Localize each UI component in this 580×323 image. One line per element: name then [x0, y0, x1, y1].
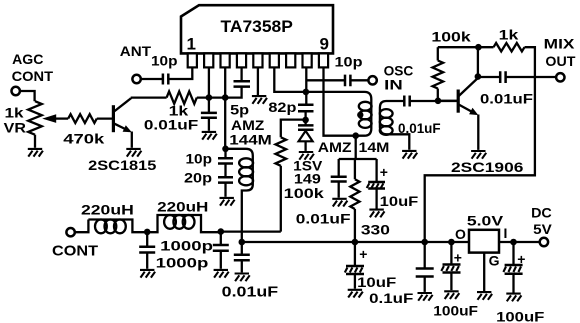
capacitor C 0.01uF (MIX out) — [480, 71, 534, 106]
wire C to ground — [208, 118, 210, 131]
svg-text:G: G — [489, 253, 500, 269]
wire cap to MIX terminal — [506, 76, 556, 78]
IC U1 pin 1 — [188, 53, 197, 67]
node junction Q2 collector — [475, 73, 482, 80]
svg-text:AGC: AGC — [12, 51, 43, 67]
svg-text:0.01uF: 0.01uF — [398, 120, 441, 136]
wire 1k to 5p corner — [197, 87, 242, 98]
svg-text:+: + — [380, 164, 388, 180]
inductor L1 tank coil AMZ 144M — [226, 117, 272, 242]
svg-text:100uF: 100uF — [433, 302, 478, 318]
node junction varicap — [302, 117, 309, 124]
terminal OSC IN — [368, 63, 413, 93]
IC U1 pin 4 — [237, 53, 246, 67]
svg-text:OUT: OUT — [545, 53, 575, 69]
wire Q1 emitter down — [131, 132, 133, 148]
ground below regulator — [477, 292, 492, 300]
svg-text:IN: IN — [384, 77, 403, 93]
svg-text:1k: 1k — [499, 27, 519, 43]
wire 1k to supply drop — [425, 47, 535, 242]
wiper arrow of VR1 — [42, 114, 68, 123]
svg-text:470k: 470k — [63, 130, 104, 146]
wire R470k to Q1 base — [97, 117, 114, 119]
ground below Q2 — [471, 151, 486, 159]
capacitor C 100uF (left electrolytic) — [433, 242, 478, 318]
svg-text:82p: 82p — [268, 99, 296, 115]
svg-text:100uF: 100uF — [496, 308, 545, 323]
resistor R 1k (Q1 collector) — [167, 91, 197, 118]
capacitor C 0.01uF (330 net) — [296, 159, 351, 226]
wire top rail Q2 — [438, 46, 494, 48]
node junction 82p — [303, 89, 310, 96]
capacitor C 10p (OSC) — [335, 54, 363, 87]
wire pin6 to node — [274, 67, 305, 92]
IC U1 pin 9 — [319, 53, 328, 67]
wire 82p to varicap — [304, 111, 306, 125]
ground below 0.01uF — [332, 199, 347, 207]
resistor R 470k — [63, 114, 104, 146]
transformer T1 primary — [306, 92, 390, 155]
wire pin9 down — [324, 67, 356, 135]
wire 10p to OSC terminal — [350, 79, 368, 81]
capacitor C 10uF (lower electrolytic) — [345, 242, 397, 290]
svg-text:100k: 100k — [284, 185, 324, 201]
wire 10p to 20p — [224, 149, 226, 177]
svg-text:5.0V: 5.0V — [467, 213, 504, 229]
capacitor C 5p — [230, 81, 250, 118]
svg-text:+: + — [359, 246, 367, 262]
ground below varicap — [299, 152, 314, 160]
node junction top rail — [475, 44, 482, 51]
inductor L2 220uH — [81, 202, 147, 234]
svg-text:10p: 10p — [186, 150, 213, 166]
svg-text:220uH: 220uH — [81, 202, 134, 218]
capacitor C 0.1uF — [369, 242, 434, 306]
node junction pin2 — [206, 94, 213, 101]
svg-text:O: O — [455, 226, 466, 242]
svg-text:1000p: 1000p — [160, 238, 213, 254]
svg-text:+: + — [454, 250, 462, 266]
svg-text:330: 330 — [361, 221, 390, 237]
ground below pin2 cap — [202, 132, 217, 140]
svg-text:5p: 5p — [230, 102, 249, 118]
svg-text:0.01uF: 0.01uF — [222, 284, 279, 301]
wire Q2 emitter down — [477, 115, 479, 150]
node junction tank top — [222, 146, 229, 153]
ground below Q1 emitter — [126, 149, 141, 157]
resistor R 100k (varicap feed) — [276, 137, 325, 201]
svg-text:10p: 10p — [335, 54, 363, 70]
ground below upper 10uF — [369, 210, 384, 218]
resistor R 330 — [350, 159, 390, 242]
svg-text:100k: 100k — [431, 29, 471, 45]
ground below 1000p second — [214, 270, 229, 278]
resistor R 1k (Q2 load) — [494, 27, 525, 52]
capacitor C 1000p (second) — [156, 232, 229, 271]
wire CONT to L2 — [75, 220, 88, 233]
wire collector to MIX cap — [478, 76, 500, 78]
terminal CONT — [52, 228, 98, 260]
wire pin8 down to 82p — [305, 67, 307, 104]
wire AGC line to 100k — [221, 230, 281, 232]
svg-text:CONT: CONT — [12, 68, 54, 84]
IC U1 pin 3 — [221, 53, 230, 67]
node junction bus 330 — [352, 239, 359, 246]
svg-text:14M: 14M — [359, 139, 390, 155]
wire 20p to ground — [224, 183, 226, 197]
wire coupling cap to Q2 base — [410, 100, 459, 102]
ground below 1000p first — [140, 270, 155, 278]
wire pin3 down to tank — [224, 67, 226, 148]
svg-text:2SC1815: 2SC1815 — [88, 157, 157, 173]
ground below secondary — [402, 151, 417, 159]
svg-text:I: I — [504, 225, 508, 241]
capacitor C 20p — [184, 170, 233, 186]
svg-text:1: 1 — [187, 34, 196, 53]
ground below lower 10uF — [348, 290, 363, 298]
IC U1 pin 5 — [253, 53, 262, 67]
ground below right 100uF — [506, 294, 521, 302]
svg-text:1k: 1k — [5, 104, 24, 120]
inductor L3 220uH — [147, 199, 221, 233]
svg-text:2SC1906: 2SC1906 — [451, 159, 524, 175]
svg-text:0.01uF: 0.01uF — [480, 91, 534, 107]
svg-text:0.01uF: 0.01uF — [144, 117, 199, 133]
transistor Q2 2SC1906 — [438, 47, 524, 175]
capacitor C 10p (tank) — [186, 150, 234, 166]
node junction filter 2 — [218, 228, 225, 235]
capacitor C 1000p (first) — [139, 232, 213, 269]
wire pin2 down — [208, 67, 210, 113]
svg-text:0.01uF: 0.01uF — [296, 210, 351, 226]
svg-text:10uF: 10uF — [357, 274, 397, 290]
node junction bus 100uF left — [448, 239, 455, 246]
capacitor C 10p (antenna) — [151, 53, 178, 85]
svg-text:20p: 20p — [184, 170, 212, 186]
node line Q1 collector to pins 2,3 — [131, 96, 167, 98]
capacitor C 82p — [268, 99, 313, 115]
wire 330 network top — [339, 136, 377, 159]
regulator U2 5.0V — [455, 213, 507, 269]
ground below left 100uF — [444, 291, 459, 299]
node junction bus 100uF right — [510, 239, 517, 246]
wire AGC terminal to VR1 — [20, 91, 34, 101]
ground below bus left cap — [235, 274, 250, 282]
IC U1 TA7358P body — [181, 5, 333, 53]
IC U1 pin 6 — [270, 53, 279, 67]
svg-text:AMZ: AMZ — [318, 139, 352, 155]
wire C10p to pin1 — [168, 67, 192, 79]
node junction filter 1 — [144, 229, 151, 236]
node junction transformer bottom — [352, 132, 359, 139]
resistor R 100k (Q2 bias) — [431, 29, 471, 101]
svg-text:144M: 144M — [229, 131, 271, 147]
capacitor C 10uF (upper electrolytic) — [367, 159, 419, 209]
capacitor C 0.01uF (bus left) — [222, 242, 279, 301]
svg-text:CONT: CONT — [52, 243, 98, 260]
wire varicap to ground — [304, 141, 306, 151]
ground below pin5 — [252, 96, 267, 104]
svg-text:220uH: 220uH — [157, 199, 208, 215]
svg-text:5V: 5V — [533, 221, 552, 237]
terminal DC 5V — [531, 204, 552, 246]
svg-text:9: 9 — [320, 34, 329, 53]
transformer T1 secondary — [380, 101, 409, 150]
terminal MIX OUT — [544, 36, 576, 82]
ground below 20p — [220, 198, 235, 206]
node junction Q2 base — [435, 98, 442, 105]
IC U1 pin 8 — [303, 53, 312, 67]
terminal AGC CONT — [12, 51, 54, 95]
potentiometer VR1 1k — [4, 101, 42, 135]
wire 100k bottom to AGC line — [280, 166, 282, 232]
IC U1 pin 7 — [286, 53, 295, 67]
transistor Q1 2SC1815 — [88, 98, 157, 174]
wire VR1 bottom — [34, 135, 36, 148]
svg-text:ANT: ANT — [120, 43, 152, 59]
svg-text:1000p: 1000p — [156, 255, 209, 271]
capacitor C 100uF (right electrolytic) — [496, 242, 545, 323]
capacitor C 0.01uF (osc coupling) — [398, 96, 441, 137]
ground below 0.1uF — [418, 293, 433, 301]
wire pin5 to ground — [257, 67, 259, 95]
wire OSC line from pin8 — [306, 79, 345, 81]
terminal ANT — [120, 43, 152, 83]
svg-text:10p: 10p — [151, 53, 178, 69]
wire ANT to C 10p — [141, 78, 163, 80]
svg-text:TA7358P: TA7358P — [221, 17, 293, 36]
node junction bus 0.1uF — [421, 239, 428, 246]
capacitor C 0.01uF (pin2 bypass) — [144, 113, 217, 133]
node junction main bus left — [239, 239, 246, 246]
svg-text:10uF: 10uF — [380, 193, 419, 209]
IC U1 pin 2 — [204, 53, 213, 67]
wire 100k top to varicap node — [281, 120, 306, 138]
varicap D1 1SV149 — [293, 125, 323, 186]
wire regulator ground pin — [483, 253, 485, 291]
svg-text:VR: VR — [4, 119, 26, 135]
node junction pin3 — [222, 94, 229, 101]
svg-text:MIX: MIX — [544, 36, 576, 52]
ground below VR1 — [28, 149, 43, 157]
svg-text:+: + — [517, 251, 525, 267]
wire main bus — [242, 241, 540, 243]
svg-text:DC: DC — [531, 204, 552, 220]
wire pin4 to 5p — [240, 67, 242, 81]
svg-text:0.1uF: 0.1uF — [369, 290, 414, 306]
